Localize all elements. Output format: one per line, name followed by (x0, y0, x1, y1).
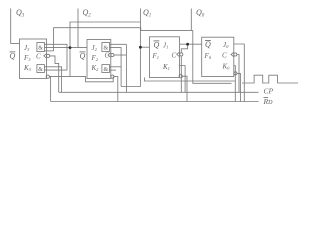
reset bubble F1 (179, 75, 182, 78)
wire K2 AND stub 1 (110, 66, 122, 68)
wire K3 AND stub 2 (44, 69, 67, 71)
clock bubble C3 (47, 54, 50, 57)
wire CP rail (59, 91, 259, 93)
flip-flop F1 (150, 37, 180, 78)
reset bubble F0 (234, 72, 237, 75)
svg-text:J0: J0 (223, 41, 229, 49)
AND gate box K2 (102, 65, 110, 73)
wire C2 clock drop (114, 54, 126, 56)
svg-text:&: & (104, 46, 109, 52)
wire bottom run H81 (145, 78, 236, 82)
wire V down from H3 (193, 30, 232, 83)
svg-text:K2: K2 (91, 64, 100, 72)
wire K1 stub (180, 66, 186, 93)
svg-text:F1: F1 (152, 52, 160, 60)
wire J2 AND stub 1 (110, 43, 127, 45)
svg-text:F3: F3 (23, 54, 31, 62)
wire C1 below bubble to CP (180, 56, 182, 92)
wire Q2 label line (77, 9, 79, 48)
svg-text:C: C (105, 52, 110, 60)
svg-text:Q3: Q3 (16, 8, 25, 19)
flip-flop F3 (20, 39, 47, 79)
svg-text:J2: J2 (92, 44, 98, 52)
wire H3 Q0 top run (141, 29, 193, 31)
junction dot Q1 (139, 46, 142, 49)
wire reset F1 drop (182, 76, 187, 101)
clock wedge C3 (44, 54, 47, 59)
junction dot Q2-J3 (69, 46, 72, 49)
wire J0 stub (234, 44, 245, 102)
wire H2 Q0 to J3 AND (54, 28, 141, 51)
AND gate box K3 (37, 65, 45, 73)
svg-text:C: C (172, 52, 177, 60)
wire C0 stub (237, 55, 239, 93)
wire K3 AND stub 1 (44, 67, 61, 93)
svg-text:Q: Q (154, 41, 160, 50)
wire H1 Q1 to J3 AND (70, 22, 140, 76)
svg-text:Q0: Q0 (196, 8, 205, 19)
svg-text:F0: F0 (204, 52, 212, 60)
reset bubble F2 (111, 75, 114, 78)
wire C2 vertical to CP (125, 44, 127, 92)
svg-text:&: & (38, 46, 43, 52)
flip-flop F2 (87, 40, 111, 79)
wire Q2 output row (44, 47, 87, 49)
svg-text:CP: CP (264, 87, 274, 96)
svg-text:RD: RD (263, 97, 274, 106)
svg-text:K3: K3 (23, 64, 32, 72)
svg-text:Q: Q (205, 40, 211, 49)
clock wedge C1 (177, 52, 180, 57)
svg-text:C: C (36, 53, 41, 61)
wire K0 stub (234, 66, 236, 102)
wire C3 clock path (50, 56, 59, 92)
CP waveform (242, 75, 298, 83)
svg-text:C: C (222, 52, 227, 60)
svg-text:Q1: Q1 (143, 8, 151, 19)
wire K2 AND stub 2 (110, 69, 117, 71)
clock wedge C2 (108, 53, 111, 58)
wire Q0 row F1-F0 (180, 43, 202, 45)
wire RD rail (51, 101, 259, 103)
wire reset F2 drop (114, 77, 118, 102)
svg-text:&: & (104, 67, 109, 73)
AND gate box J3 (37, 43, 45, 52)
wire C1 staircase from Q0 dot (181, 44, 187, 53)
svg-text:Q2: Q2 (83, 8, 92, 19)
clock bubble C2 (111, 53, 114, 56)
reset bubble F3 (46, 75, 49, 78)
wire jog H2-H3 (140, 28, 142, 31)
wire Q3 output to label (11, 9, 20, 44)
wire reset F0 drop (237, 73, 240, 101)
wire J3 AND stub C (44, 50, 53, 52)
svg-text:F2: F2 (91, 54, 99, 62)
wire J2 AND stub 2 (110, 48, 122, 87)
svg-text:&: & (38, 67, 43, 73)
svg-text:K1: K1 (162, 63, 170, 71)
wire C2 loop bottom (121, 47, 140, 86)
wire reset bus F3 to F2 (49, 76, 113, 81)
AND gate box J2 (102, 43, 110, 52)
flip-flop F0 (202, 37, 234, 76)
clock bubble C0 (234, 53, 237, 56)
svg-text:Q: Q (80, 52, 86, 61)
wire Q0 label line (190, 9, 192, 31)
wire reset F3 drop (50, 76, 52, 101)
wire Q1 label line (139, 9, 141, 48)
junction dot Q0-C1 (186, 43, 189, 46)
wire Q1 output row (140, 46, 149, 48)
svg-text:K0: K0 (222, 63, 231, 71)
wire J3 AND stub A (44, 44, 67, 70)
clock wedge C0 (231, 52, 234, 57)
svg-text:J3: J3 (24, 44, 30, 52)
clock bubble C1 (180, 53, 183, 56)
svg-text:Q: Q (10, 52, 16, 61)
svg-text:J1: J1 (163, 42, 168, 50)
